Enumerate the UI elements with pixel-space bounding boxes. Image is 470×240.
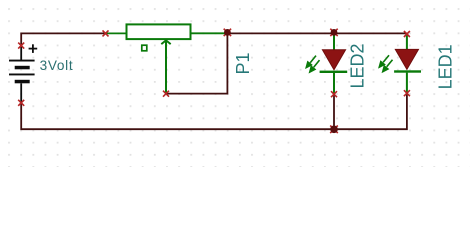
svg-text:3Volt: 3Volt: [40, 58, 74, 73]
junction dot LED2 bottom: [330, 126, 338, 134]
LED1: [394, 35, 421, 93]
LED1 light arrows: [379, 55, 392, 71]
potentiometer marker square: [142, 45, 147, 51]
pin marker LED2 anode node: [330, 29, 337, 36]
pin marker battery minus pin: [18, 100, 24, 106]
wire potentiometer wiper loop: [166, 33, 227, 93]
wire top from potentiometer node to LED1 anode: [227, 32, 407, 34]
svg-text:LED2: LED2: [348, 43, 368, 88]
battery 3Volt: [9, 46, 35, 103]
svg-text:P1: P1: [233, 52, 253, 74]
LED2: [320, 34, 348, 94]
pin marker LED2 bottom node: [330, 126, 338, 134]
pin marker potentiometer right node: [224, 29, 231, 36]
wire bottom return from LED1 to battery minus: [21, 93, 407, 129]
pin marker LED1 anode pin: [404, 31, 410, 37]
pin marker potentiometer wiper pin: [163, 91, 169, 97]
potentiometer wiper arrow: [161, 40, 170, 92]
LED2 light arrows: [306, 56, 319, 72]
junction dot LED2 anode: [331, 29, 338, 36]
potentiometer left lead: [106, 32, 127, 34]
pin marker LED2 cathode pin: [331, 91, 337, 97]
potentiometer P1 body: [127, 24, 191, 39]
wire top from battery plus to potentiometer left pin: [21, 33, 105, 45]
pin marker LED1 cathode pin: [404, 90, 410, 96]
svg-text:LED1: LED1: [436, 44, 456, 89]
junction dot potentiometer node: [224, 29, 231, 36]
pin marker potentiometer left pin: [103, 30, 109, 36]
pin marker battery plus pin: [18, 43, 24, 49]
wire LED2 cathode drop: [333, 94, 335, 129]
potentiometer right lead: [192, 32, 225, 34]
battery plus sign: [29, 44, 38, 53]
